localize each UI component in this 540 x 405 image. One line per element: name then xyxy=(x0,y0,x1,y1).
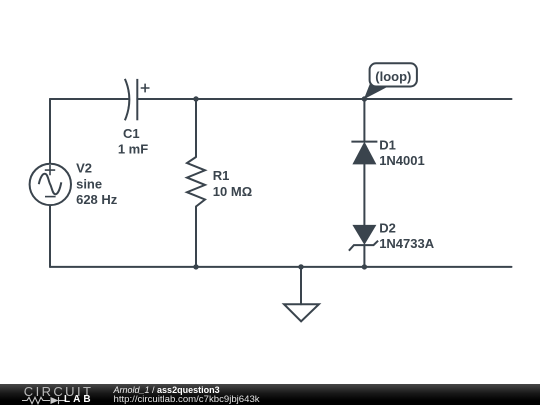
capacitor C1 xyxy=(125,79,150,120)
label D1 value xyxy=(379,137,425,168)
svg-text:1 mF: 1 mF xyxy=(118,142,148,157)
label C1 value xyxy=(118,126,148,157)
node junction top D1 xyxy=(362,96,367,101)
footer bar xyxy=(0,384,540,405)
footer url text xyxy=(114,395,260,405)
label D2 value xyxy=(379,220,435,251)
wire D2 bottom stem xyxy=(363,245,365,267)
zener diode D2 xyxy=(349,225,378,251)
wire left-upper xyxy=(49,99,51,164)
circuitlab logo resistor-diode glyph xyxy=(22,396,65,405)
wire ground stem xyxy=(300,267,302,304)
wire R1 top stem xyxy=(195,99,197,157)
wire D1 top stem xyxy=(363,99,365,142)
wire top-left xyxy=(50,98,129,100)
wire left-lower xyxy=(49,205,51,267)
svg-text:R1: R1 xyxy=(213,168,230,183)
ground xyxy=(284,304,319,321)
wire top-right xyxy=(137,98,511,100)
label V2 value xyxy=(76,161,118,207)
svg-text:628 Hz: 628 Hz xyxy=(76,192,118,207)
wire bottom xyxy=(50,266,512,268)
label R1 value xyxy=(213,168,252,199)
svg-text:(loop): (loop) xyxy=(375,69,411,84)
annotation loop flag xyxy=(364,63,417,99)
voltage source V2 xyxy=(30,164,71,205)
svg-text:D2: D2 xyxy=(379,220,396,235)
node junction bottom R1 xyxy=(193,264,198,269)
node junction bottom D2 xyxy=(362,264,367,269)
wire R1 bottom stem xyxy=(195,207,197,267)
resistor R1 xyxy=(187,157,205,207)
node junction bottom ground xyxy=(298,264,303,269)
svg-text:sine: sine xyxy=(76,176,102,191)
wire D1-D2 stem xyxy=(363,164,365,225)
svg-text:C1: C1 xyxy=(123,126,140,141)
footer title text xyxy=(114,386,220,395)
svg-text:1N4001: 1N4001 xyxy=(379,153,425,168)
svg-text:D1: D1 xyxy=(379,137,396,152)
circuitlab logo wordmark xyxy=(24,385,94,398)
svg-text:1N4733A: 1N4733A xyxy=(379,236,435,251)
diode D1 xyxy=(351,142,377,165)
svg-text:10 MΩ: 10 MΩ xyxy=(213,184,252,199)
svg-text:V2: V2 xyxy=(76,161,92,176)
node junction top R1 xyxy=(193,96,198,101)
